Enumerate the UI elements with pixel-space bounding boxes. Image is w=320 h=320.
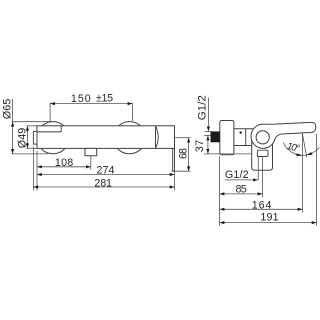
spout outlet strip (front) — [173, 148, 175, 171]
svg-text:85: 85 — [236, 184, 247, 196]
outlet bore G1/2 — [257, 150, 268, 156]
dimension line 68 — [188, 138, 190, 172]
extension line left cap face — [32, 147, 34, 191]
leader G1/2 outlet — [225, 179, 258, 181]
screw dot on neck — [240, 131, 242, 133]
dimension line 150 +-15 — [50, 103, 132, 105]
dimension line 108 — [37, 166, 91, 168]
node: nipple top tick — [205, 131, 211, 133]
svg-text:Ø65: Ø65 — [1, 99, 13, 119]
dimension line 274 — [37, 174, 175, 176]
dimension line D49 — [26, 126, 28, 148]
node: angle leg vertical / 164 extension — [301, 134, 303, 213]
node: neck divider — [245, 129, 247, 146]
hand shower outlet square — [85, 148, 97, 155]
dimension line 164 — [220, 208, 303, 210]
svg-text:±15: ±15 — [96, 93, 113, 105]
flange circle left — [37, 122, 69, 154]
extension line outlet centre — [261, 157, 263, 198]
svg-text:274: 274 — [97, 165, 115, 177]
svg-text:G1/2: G1/2 — [225, 169, 249, 181]
extension line under escutcheon to outlet — [204, 153, 252, 155]
extension line wall face — [219, 156, 221, 226]
svg-text:37: 37 — [194, 140, 206, 153]
dimension line 85 — [220, 193, 263, 195]
angle arc 10 deg — [283, 143, 319, 156]
extension line outlet bottom right — [172, 170, 191, 172]
extension line right body face — [174, 172, 176, 191]
svg-text:150: 150 — [71, 93, 91, 105]
extension line left body face — [36, 151, 38, 191]
dimension line 37 — [204, 134, 212, 136]
faucet body — [37, 126, 175, 149]
valve head and lever blade — [251, 122, 316, 148]
cartridge inner circle — [256, 131, 269, 144]
svg-text:108: 108 — [55, 157, 73, 169]
node: right mount centerline — [131, 103, 133, 121]
dimension line 281 — [33, 186, 174, 188]
left end cap — [33, 132, 37, 145]
extension line lever tip — [316, 134, 318, 226]
flange circle right — [113, 122, 145, 154]
joint ellipse near right end — [156, 126, 159, 149]
svg-text:Ø49: Ø49 — [16, 128, 28, 148]
node: shower outlet centerline — [90, 156, 92, 170]
svg-text:G1/2: G1/2 — [197, 95, 209, 120]
extension line body centre right — [175, 137, 190, 139]
leader G1/2 wall — [207, 98, 209, 131]
wall nipple (black) — [211, 131, 220, 142]
extension line body bottom left — [27, 147, 37, 149]
outlet tube (side) — [252, 140, 273, 170]
extension line bore left — [257, 157, 259, 181]
collar step at left end — [37, 126, 61, 132]
svg-text:281: 281 — [94, 177, 112, 189]
svg-text:68: 68 — [178, 148, 190, 159]
dimension line D65 — [12, 99, 14, 154]
svg-text:164: 164 — [252, 200, 272, 212]
node: angle leg tilted 10 deg — [302, 134, 306, 158]
wire: bottom tangent extension line of flange — [12, 153, 48, 155]
wall escutcheon (side) — [220, 121, 234, 155]
wire: top tangent extension line of flange — [12, 121, 51, 123]
dimension line 191 — [220, 222, 317, 224]
extension line body top left — [27, 125, 37, 127]
node: left mount centerline — [49, 103, 51, 122]
neck between escutcheon and valve — [234, 129, 254, 146]
svg-text:191: 191 — [260, 212, 278, 224]
